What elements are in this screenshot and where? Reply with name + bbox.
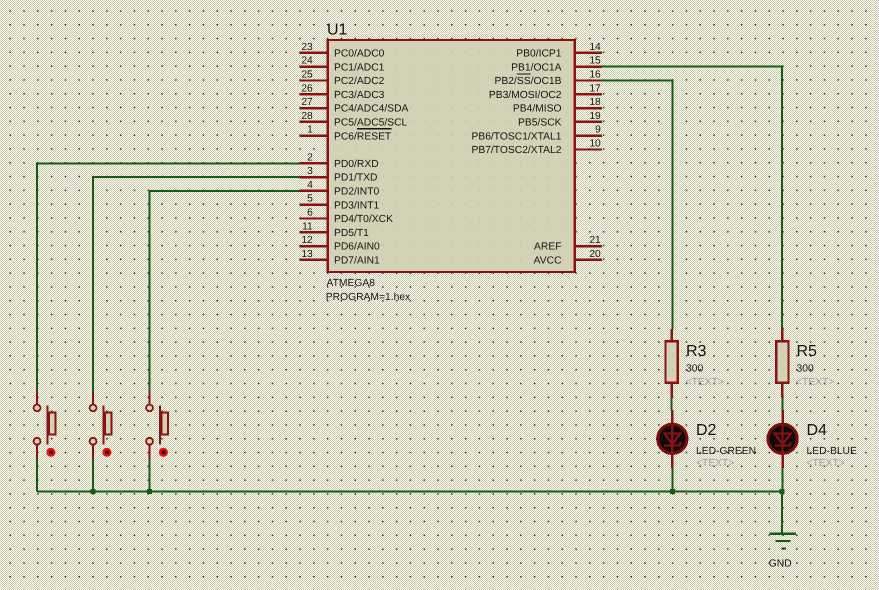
- svg-text:4: 4: [307, 180, 313, 191]
- svg-text:6: 6: [307, 208, 313, 219]
- svg-text:27: 27: [301, 97, 313, 108]
- pin 6 PD4/T0/XCK: [299, 208, 393, 226]
- pin 2 PD0/RXD: [299, 152, 378, 170]
- svg-text:PB0/ICP1: PB0/ICP1: [516, 49, 561, 60]
- svg-text:PD0/RXD: PD0/RXD: [334, 159, 379, 170]
- svg-text:PB2/SS/OC1B: PB2/SS/OC1B: [495, 76, 562, 87]
- svg-text:AREF: AREF: [534, 242, 561, 253]
- svg-text:LED-GREEN: LED-GREEN: [696, 446, 756, 457]
- wire pin 16 PB2 to R3: [602, 80, 673, 330]
- svg-text:PD1/TXD: PD1/TXD: [334, 173, 378, 184]
- pin 27 PC4/ADC4/SDA: [299, 97, 408, 115]
- pin 19 PB5/SCK: [518, 111, 602, 129]
- IC U1 ATMEGA8 microcontroller body: [328, 40, 575, 272]
- svg-text:D4: D4: [807, 422, 828, 439]
- svg-text:10: 10: [589, 139, 601, 150]
- junction at D4 corner: [779, 489, 784, 494]
- svg-text:PD7/AIN1: PD7/AIN1: [334, 256, 380, 267]
- pin 9 PB6/TOSC1/XTAL1: [471, 125, 601, 143]
- svg-text:PC6/RESET: PC6/RESET: [334, 131, 392, 142]
- pin 14 PB0/ICP1: [516, 42, 602, 60]
- junction at D2 cathode: [670, 489, 675, 494]
- wire D4 cathode to bus: [782, 468, 784, 492]
- svg-text:AVCC: AVCC: [534, 256, 562, 267]
- svg-text:14: 14: [589, 42, 601, 53]
- svg-text:<TEXT>: <TEXT>: [796, 377, 834, 388]
- svg-text:300: 300: [686, 364, 703, 375]
- wire resistor to LED: [781, 398, 783, 411]
- resistor R3 300: [666, 329, 678, 398]
- LED D4 LED-BLUE: [768, 410, 797, 468]
- pin 4 PD2/INT0: [299, 180, 379, 198]
- svg-text:24: 24: [301, 56, 313, 67]
- wire ground bus: [37, 460, 782, 492]
- svg-text:<TEXT>: <TEXT>: [686, 377, 724, 388]
- svg-text:15: 15: [589, 56, 601, 67]
- pin 26 PC3/ADC3: [299, 83, 384, 101]
- svg-text:PROGRAM=1.hex: PROGRAM=1.hex: [326, 292, 411, 303]
- wire D2 cathode to bus: [671, 468, 673, 492]
- svg-text:PD6/AIN0: PD6/AIN0: [334, 242, 380, 253]
- pin 3 PD1/TXD: [299, 166, 377, 184]
- wire pin 15 PB1/OC1A to R5: [602, 66, 782, 330]
- svg-text:21: 21: [589, 235, 601, 246]
- pin 13 PD7/AIN1: [299, 249, 380, 267]
- svg-text:PD2/INT0: PD2/INT0: [334, 187, 379, 198]
- pin 24 PC1/ADC1: [299, 56, 384, 74]
- svg-text:16: 16: [589, 70, 601, 81]
- svg-text:26: 26: [301, 83, 313, 94]
- pin 23 PC0/ADC0: [299, 42, 384, 60]
- pin 10 PB7/TOSC2/XTAL2: [471, 139, 601, 157]
- svg-text:25: 25: [301, 70, 313, 81]
- svg-text:PC2/ADC2: PC2/ADC2: [334, 76, 385, 87]
- resistor R5 300: [776, 329, 788, 398]
- junction at button 2: [91, 489, 96, 494]
- svg-text:PB7/TOSC2/XTAL2: PB7/TOSC2/XTAL2: [471, 145, 561, 156]
- RESET overline: [357, 128, 392, 130]
- svg-text:23: 23: [301, 42, 313, 53]
- pin 21 AREF: [534, 235, 602, 253]
- svg-text:R3: R3: [686, 343, 707, 360]
- svg-text:PB1/OC1A: PB1/OC1A: [511, 62, 561, 73]
- LED D2 LED-GREEN: [658, 410, 687, 468]
- svg-text:19: 19: [589, 111, 601, 122]
- svg-text:9: 9: [595, 125, 601, 136]
- svg-text:13: 13: [301, 249, 313, 260]
- push button 2: [90, 391, 112, 460]
- svg-text:PC4/ADC4/SDA: PC4/ADC4/SDA: [334, 104, 409, 115]
- svg-text:3: 3: [307, 166, 313, 177]
- svg-text:GND: GND: [769, 559, 792, 570]
- push button 3: [146, 391, 168, 460]
- svg-text:11: 11: [302, 221, 313, 232]
- pin 28 PC5/ADC5/SCL: [299, 111, 407, 129]
- pin 11 PD5/T1: [299, 221, 369, 239]
- pin 5 PD3/INT1: [299, 194, 379, 212]
- svg-text:PB4/MISO: PB4/MISO: [513, 104, 562, 115]
- pin 18 PB4/MISO: [513, 97, 602, 115]
- svg-text:28: 28: [301, 111, 313, 122]
- svg-text:300: 300: [797, 364, 814, 375]
- svg-text:PD4/T0/XCK: PD4/T0/XCK: [334, 214, 393, 225]
- SS overline: [517, 73, 531, 75]
- pin 20 AVCC: [534, 249, 602, 267]
- svg-text:LED-BLUE: LED-BLUE: [807, 446, 857, 457]
- svg-text:U1: U1: [327, 21, 348, 38]
- wire PD1 pin to button 2: [93, 176, 299, 391]
- svg-text:5: 5: [307, 194, 313, 205]
- pin 17 PB3/MOSI/OC2: [489, 83, 602, 101]
- svg-text:PC0/ADC0: PC0/ADC0: [334, 49, 385, 60]
- pin 15 PB1/OC1A: [511, 56, 602, 74]
- push button 1: [34, 391, 56, 460]
- svg-text:D2: D2: [696, 422, 717, 439]
- svg-text:1: 1: [307, 125, 313, 136]
- svg-text:18: 18: [589, 97, 601, 108]
- wire PD2 pin to button 3: [150, 190, 300, 391]
- wire resistor to LED: [671, 398, 673, 411]
- svg-text:PB5/SCK: PB5/SCK: [518, 118, 562, 129]
- wire PD0 pin to button 1: [37, 162, 299, 391]
- svg-text:2: 2: [307, 152, 313, 163]
- svg-text:ATMEGA8: ATMEGA8: [327, 278, 376, 289]
- svg-text:<TEXT>: <TEXT>: [696, 458, 734, 469]
- svg-text:PC5/ADC5/SCL: PC5/ADC5/SCL: [334, 118, 408, 129]
- svg-text:PC3/ADC3: PC3/ADC3: [334, 90, 385, 101]
- svg-text:PB6/TOSC1/XTAL1: PB6/TOSC1/XTAL1: [471, 131, 561, 142]
- svg-text:PC1/ADC1: PC1/ADC1: [334, 62, 385, 73]
- pin 1 PC6/RESET: [299, 125, 392, 143]
- ground: [770, 534, 797, 549]
- wire D4 to ground: [781, 492, 783, 534]
- svg-text:PD3/INT1: PD3/INT1: [334, 200, 379, 211]
- pin 25 PC2/ADC2: [299, 70, 384, 88]
- svg-text:PD5/T1: PD5/T1: [334, 228, 369, 239]
- svg-text:12: 12: [301, 235, 313, 246]
- svg-text:R5: R5: [797, 343, 818, 360]
- svg-text:17: 17: [589, 83, 601, 94]
- svg-text:20: 20: [589, 249, 601, 260]
- pin 16 PB2/SS/OC1B: [495, 70, 602, 88]
- pin 12 PD6/AIN0: [299, 235, 380, 253]
- svg-text:<TEXT>: <TEXT>: [807, 458, 845, 469]
- junction at button 3: [147, 489, 152, 494]
- svg-text:PB3/MOSI/OC2: PB3/MOSI/OC2: [489, 90, 562, 101]
